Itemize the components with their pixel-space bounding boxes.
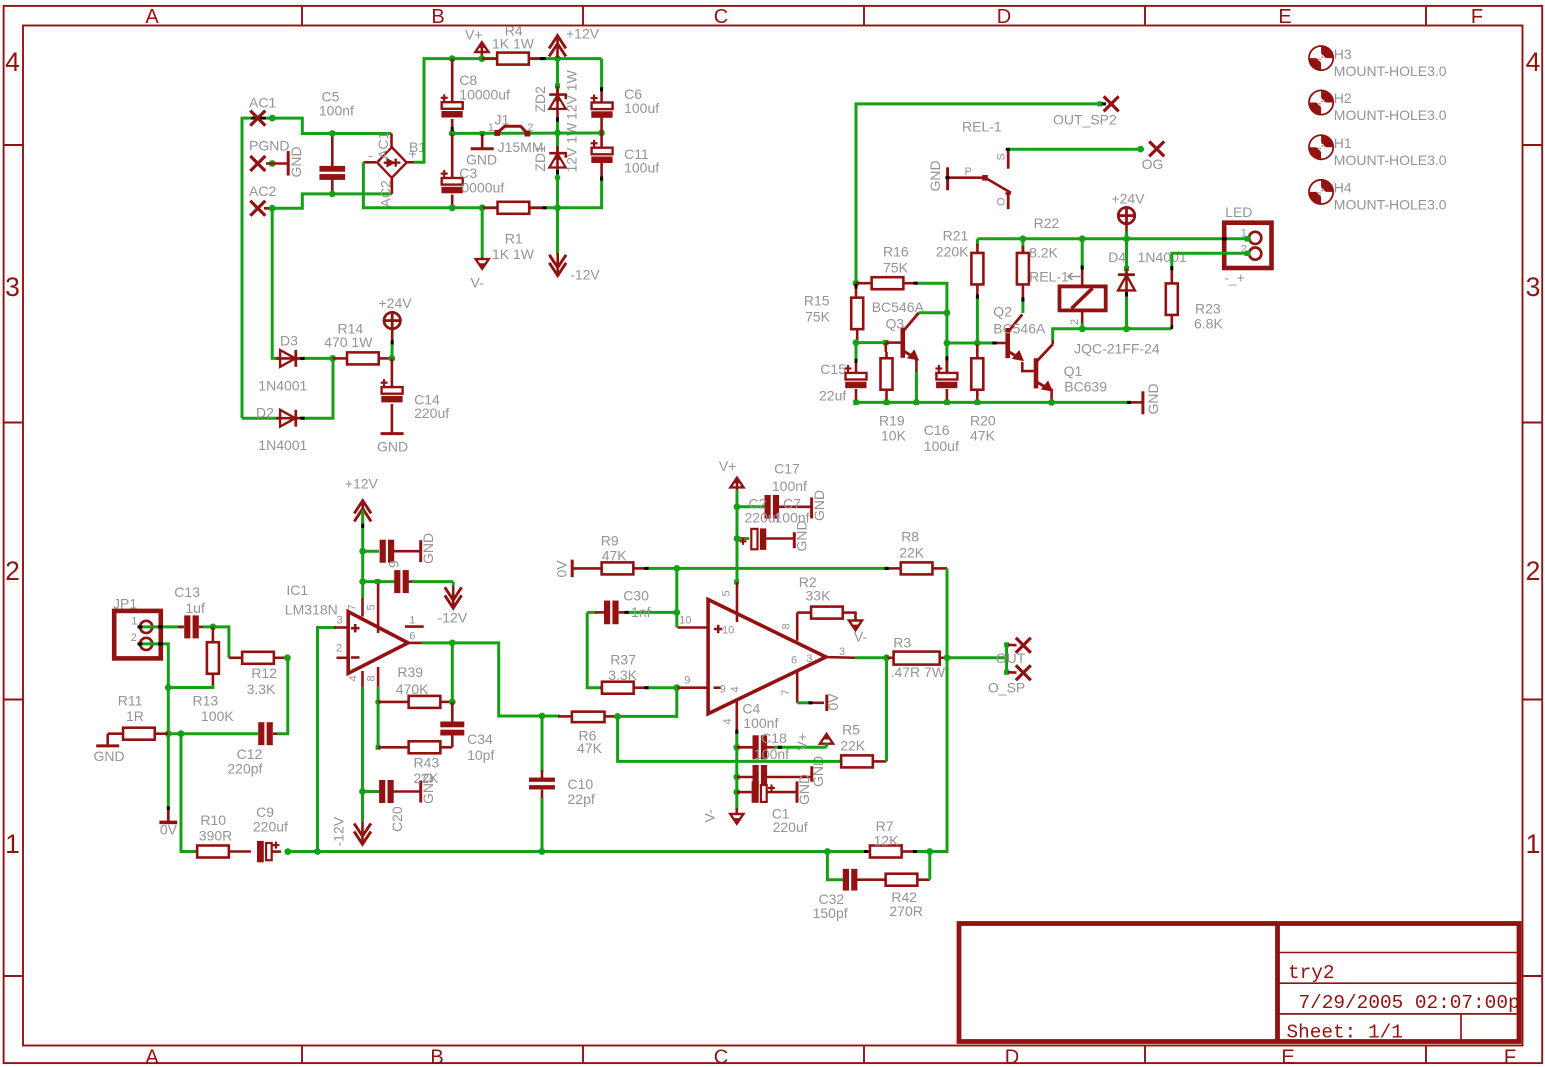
svg-text:100nf: 100nf: [319, 103, 354, 119]
relay contact pole P: [982, 175, 988, 181]
supply V- bottom: [481, 208, 484, 257]
svg-text:3: 3: [5, 272, 20, 302]
ground PGND: [287, 151, 290, 176]
svg-text:D2: D2: [256, 405, 274, 421]
ground rail relay: [856, 401, 1130, 404]
wire AC2 net: [272, 194, 392, 208]
zener diode ZD1: [554, 130, 561, 137]
capacitor C2 bypass op2: [737, 537, 749, 540]
svg-text:Q2: Q2: [993, 304, 1012, 320]
svg-text:1R: 1R: [126, 708, 144, 724]
jumper J1: [480, 131, 485, 136]
supply V- at R2: [854, 613, 857, 621]
diode D2: [276, 417, 301, 420]
supply +12V at IC1: [361, 505, 364, 523]
svg-text:GND: GND: [811, 490, 827, 521]
svg-text:10: 10: [679, 615, 691, 627]
svg-text:-12V: -12V: [331, 816, 347, 846]
svg-text:+24V: +24V: [379, 295, 413, 311]
svg-text:Q1: Q1: [1064, 363, 1083, 379]
svg-text:H2: H2: [1334, 90, 1352, 106]
svg-text:S: S: [996, 153, 1008, 160]
capacitor C17: [737, 505, 765, 508]
resistor R20: [974, 340, 981, 347]
svg-text:B: B: [430, 1047, 443, 1067]
supply -12V: [556, 208, 559, 255]
wire Q3 emitter to gnd rail: [915, 358, 918, 403]
svg-text:75K: 75K: [805, 309, 831, 325]
svg-text:try2: try2: [1288, 962, 1335, 984]
wire feedback rail to R5: [618, 716, 843, 761]
svg-text:-_+: -_+: [1224, 270, 1245, 286]
svg-text:3: 3: [337, 615, 343, 627]
svg-text:4: 4: [730, 686, 742, 692]
svg-text:100uf: 100uf: [924, 438, 959, 454]
wire bridge minus rail: [414, 59, 602, 163]
svg-text:+24V: +24V: [1111, 191, 1145, 207]
svg-text:22uf: 22uf: [819, 388, 846, 404]
svg-text:V+: V+: [465, 27, 483, 43]
svg-text:GND: GND: [466, 152, 497, 168]
svg-text:7: 7: [347, 604, 359, 610]
svg-text:390R: 390R: [199, 828, 232, 844]
svg-text:R15: R15: [804, 293, 830, 309]
capacitor C32: [827, 852, 843, 880]
svg-text:R10: R10: [200, 812, 226, 828]
svg-text:100nf: 100nf: [754, 746, 789, 762]
wire AC2 to D3 anode: [272, 208, 280, 358]
svg-text:R21: R21: [943, 228, 969, 244]
svg-text:1: 1: [409, 615, 415, 627]
supply -12V at IC1 bottom: [361, 822, 364, 840]
capacitor C34: [449, 699, 456, 706]
bridge B1 pin stubs: [390, 134, 393, 147]
svg-text:4: 4: [5, 47, 20, 77]
svg-text:3.3K: 3.3K: [247, 681, 276, 697]
wire IC1 output net: [449, 640, 456, 647]
svg-text:O_SP: O_SP: [988, 680, 1025, 696]
svg-text:R5: R5: [842, 722, 860, 738]
svg-text:C20: C20: [389, 806, 405, 832]
svg-text:1N4001: 1N4001: [258, 437, 307, 453]
svg-text:33K: 33K: [806, 587, 832, 603]
svg-text:4: 4: [348, 675, 360, 681]
supply V+ top: [475, 42, 488, 52]
op2 pin7 to 0V: [796, 670, 799, 703]
wire bottom rail: [288, 850, 828, 853]
capacitor C5: [331, 134, 334, 168]
svg-text:2: 2: [131, 632, 137, 644]
svg-text:47K: 47K: [602, 548, 628, 564]
svg-text:100nf: 100nf: [743, 715, 778, 731]
IC1 pin1 stub: [405, 625, 424, 628]
svg-text:ZD2: ZD2: [532, 86, 548, 113]
svg-text:Sheet: 1/1: Sheet: 1/1: [1287, 1022, 1403, 1044]
svg-text:REL-1: REL-1: [1029, 269, 1069, 285]
svg-text:AC2: AC2: [249, 183, 276, 199]
junction AC2: [269, 205, 276, 212]
resistor R15: [853, 280, 860, 287]
svg-text:2: 2: [1526, 556, 1541, 586]
supply -12V small at IC1 top: [452, 586, 455, 604]
svg-text:C: C: [714, 6, 728, 28]
supply +24V relay: [1123, 235, 1130, 242]
wire C13 to R12: [199, 626, 205, 629]
svg-text:GND: GND: [796, 774, 812, 805]
svg-text:3: 3: [1526, 272, 1541, 302]
relay contact S: [1007, 150, 1010, 169]
wire R37 C30 left net: [587, 612, 602, 687]
svg-text:+12V: +12V: [345, 476, 379, 492]
frame row ticks right: [1523, 144, 1543, 146]
svg-text:A: A: [145, 1047, 159, 1067]
ground relay right: [1130, 401, 1143, 404]
resistor R13: [212, 627, 215, 642]
svg-text:1: 1: [5, 829, 20, 859]
title block outline: [959, 924, 1519, 1042]
wire R11 to C12: [168, 732, 258, 735]
relay contact O: [1007, 190, 1010, 209]
resistor R6: [542, 715, 560, 718]
wire R5 to output node: [885, 658, 888, 762]
capacitor C14: [391, 358, 394, 389]
svg-text:PGND: PGND: [249, 138, 289, 154]
svg-text:C: C: [714, 1047, 728, 1067]
svg-text:2: 2: [1069, 319, 1081, 325]
IC1 pin4: [361, 671, 364, 687]
resistor R7: [827, 850, 868, 853]
IC1 pin7: [361, 597, 364, 616]
svg-text:LED: LED: [1225, 204, 1252, 220]
svg-text:BC546A: BC546A: [993, 321, 1046, 337]
svg-text:B: B: [431, 6, 444, 28]
svg-text:2: 2: [5, 556, 20, 586]
svg-text:D: D: [1005, 1047, 1019, 1067]
resistor R21: [976, 239, 979, 246]
svg-text:0V: 0V: [825, 693, 841, 711]
ground below J1: [481, 133, 484, 148]
capacitor C11: [600, 133, 603, 150]
mount hole H4: [1309, 180, 1333, 204]
svg-text:REL-1: REL-1: [962, 119, 1002, 135]
resistor R19: [885, 342, 887, 344]
svg-text:BC639: BC639: [1064, 379, 1107, 395]
svg-text:F: F: [1504, 1047, 1516, 1067]
wire AC1 to D2 anode: [242, 417, 280, 420]
resistor R5: [841, 760, 845, 763]
svg-text:J1: J1: [495, 112, 510, 128]
mount hole H3: [1309, 46, 1333, 70]
svg-text:100uf: 100uf: [624, 159, 659, 175]
relay coil REL-1: [1079, 235, 1086, 242]
svg-text:9: 9: [386, 560, 402, 568]
svg-text:Q3: Q3: [886, 316, 905, 332]
svg-text:H4: H4: [1334, 180, 1352, 196]
wire V+ to pin5: [736, 490, 739, 582]
svg-text:9: 9: [684, 675, 690, 687]
svg-text:-: -: [368, 147, 373, 163]
svg-text:220uf: 220uf: [253, 819, 288, 835]
svg-text:1K 1W: 1K 1W: [492, 35, 535, 51]
svg-text:220pf: 220pf: [227, 761, 262, 777]
svg-text:GND: GND: [420, 533, 436, 564]
resistor R4: [482, 57, 497, 60]
resistor R3: [887, 656, 894, 659]
wire PGND to GND: [266, 162, 288, 165]
svg-text:O: O: [996, 197, 1008, 206]
svg-text:4: 4: [722, 718, 734, 724]
capacitor C4 to V+: [737, 746, 754, 749]
svg-text:220K: 220K: [936, 244, 969, 260]
svg-text:47K: 47K: [970, 428, 996, 444]
op2 output pin3: [824, 656, 857, 659]
capacitor C20: [363, 790, 380, 793]
svg-text:+: +: [409, 146, 417, 162]
svg-text:1: 1: [488, 122, 494, 134]
svg-text:10K: 10K: [881, 428, 907, 444]
svg-text:R39: R39: [397, 664, 423, 680]
svg-text:8.2K: 8.2K: [1029, 245, 1058, 261]
svg-text:P: P: [965, 166, 972, 178]
supply V+ op2: [730, 478, 743, 488]
mount hole H2: [1309, 90, 1333, 114]
svg-text:75K: 75K: [883, 259, 909, 275]
resistor R9: [572, 567, 602, 570]
svg-text:H1: H1: [1334, 135, 1352, 151]
wire R9 rail to R8: [677, 567, 888, 570]
svg-text:V+: V+: [719, 458, 737, 474]
svg-text:MOUNT-HOLE3.0: MOUNT-HOLE3.0: [1334, 63, 1447, 79]
supply 0V at R9: [571, 560, 574, 578]
svg-text:E: E: [1281, 1047, 1294, 1067]
svg-text:6: 6: [791, 655, 797, 667]
capacitor C8: [449, 55, 456, 62]
title block row lines: [1278, 952, 1520, 954]
op2 pin4 net: [735, 700, 738, 733]
wire noninverting node op2: [675, 568, 678, 612]
svg-text:R3: R3: [893, 635, 911, 651]
svg-text:.47R 7W: .47R 7W: [891, 664, 946, 680]
wire JP1 pin2 net: [138, 644, 168, 808]
svg-text:1N4001: 1N4001: [258, 378, 307, 394]
svg-text:R20: R20: [970, 413, 996, 429]
IC1 pin8: [377, 667, 380, 687]
wire Q3 collector net: [944, 309, 951, 316]
wire input divider down: [181, 734, 198, 852]
svg-text:6.8K: 6.8K: [1194, 316, 1223, 332]
junction AC1: [269, 115, 276, 122]
svg-text:OG: OG: [1142, 156, 1164, 172]
svg-text:D: D: [997, 6, 1011, 28]
svg-text:C18: C18: [761, 730, 787, 746]
pad AC2: [250, 201, 265, 216]
svg-text:GND: GND: [927, 160, 943, 191]
svg-text:220uf: 220uf: [773, 819, 808, 835]
svg-text:2: 2: [336, 643, 342, 655]
svg-text:R22: R22: [1034, 215, 1060, 231]
IC1 output pin6: [406, 642, 422, 645]
svg-text:H3: H3: [1334, 46, 1352, 62]
wire output to OUT pads: [947, 656, 1007, 659]
wire S to OG: [1009, 148, 1141, 151]
svg-text:R9: R9: [601, 533, 619, 549]
svg-text:R1: R1: [505, 230, 523, 246]
op-amp IC1: [348, 612, 408, 674]
resistor R23: [1171, 268, 1174, 284]
svg-text:AC1: AC1: [249, 95, 276, 111]
svg-text:JP1: JP1: [113, 596, 137, 612]
connector JP1: [114, 611, 161, 659]
svg-text:470 1W: 470 1W: [324, 334, 373, 350]
svg-text:8: 8: [781, 623, 793, 629]
wire Q1 collector to coil: [1051, 338, 1054, 344]
op2 pin5: [736, 582, 739, 622]
wire Q1 emitter to gnd: [1050, 389, 1053, 403]
capacitor C10: [541, 716, 544, 772]
pad O_SP: [1008, 671, 1017, 674]
wire C12 up to R12: [273, 732, 279, 735]
svg-text:GND: GND: [1145, 383, 1161, 414]
svg-text:150pf: 150pf: [813, 905, 848, 921]
junction PGND: [269, 160, 276, 167]
svg-text:R23: R23: [1195, 301, 1221, 317]
ground at R11: [106, 734, 109, 746]
pad OUT: [1008, 643, 1017, 646]
svg-text:GND: GND: [94, 748, 125, 764]
svg-text:47K: 47K: [577, 740, 603, 756]
svg-text:100uf: 100uf: [624, 100, 659, 116]
frame column ticks top: [301, 6, 303, 26]
svg-text:22K: 22K: [899, 545, 925, 561]
svg-text:R12: R12: [251, 665, 277, 681]
svg-text:0000uf: 0000uf: [461, 180, 504, 196]
svg-text:10: 10: [722, 625, 734, 637]
capacitor C13: [184, 615, 190, 638]
svg-text:R8: R8: [901, 529, 919, 545]
svg-text:1uf: 1uf: [185, 600, 205, 616]
svg-text:GND: GND: [377, 439, 408, 455]
bridge rectifier B1: [377, 147, 407, 178]
svg-text:+12V: +12V: [566, 26, 600, 42]
svg-text:220uf: 220uf: [414, 405, 449, 421]
ground at contact P: [949, 176, 983, 179]
transistor Q3: [901, 328, 906, 358]
svg-text:22pf: 22pf: [568, 791, 595, 807]
svg-text:2: 2: [527, 122, 533, 134]
resistor R8: [886, 567, 901, 570]
svg-text:BC546A: BC546A: [872, 299, 925, 315]
frame row ticks left: [4, 144, 23, 146]
svg-text:R43: R43: [414, 755, 440, 771]
svg-text:6: 6: [409, 631, 415, 643]
svg-text:F: F: [1471, 6, 1483, 28]
wire 0V rail: [452, 132, 601, 135]
pad AC1: [251, 117, 266, 120]
capacitor C3: [449, 130, 456, 137]
svg-text:MOUNT-HOLE3.0: MOUNT-HOLE3.0: [1334, 197, 1447, 213]
resistor R22: [1020, 235, 1027, 242]
svg-text:470K: 470K: [396, 681, 429, 697]
wire transition nubs: [600, 87, 603, 91]
supply 0V at JP1 net: [167, 809, 170, 822]
resistor R1: [479, 204, 486, 211]
svg-text:V-: V-: [471, 275, 485, 291]
svg-text:R11: R11: [118, 693, 143, 709]
resistor R10: [197, 846, 229, 858]
wire IC1 pin8 net: [377, 687, 380, 748]
resistor R12: [229, 656, 242, 659]
resistor R43: [378, 746, 409, 749]
resistor R42: [886, 874, 918, 886]
svg-text:7/29/2005 02:07:00p: 7/29/2005 02:07:00p: [1299, 992, 1520, 1014]
svg-text:10pf: 10pf: [467, 747, 494, 763]
capacitor C15: [855, 343, 858, 362]
svg-text:C10: C10: [568, 776, 594, 792]
resistor R39: [378, 701, 409, 704]
title block divider: [1275, 924, 1280, 1042]
mount hole H1: [1309, 135, 1333, 159]
wire inverting node op2: [673, 684, 680, 691]
svg-text:JQC-21FF-24: JQC-21FF-24: [1074, 341, 1160, 357]
svg-text:C34: C34: [467, 731, 493, 747]
connector LED: [1224, 223, 1271, 268]
supply V- op2: [730, 814, 743, 824]
svg-text:22K: 22K: [414, 770, 440, 786]
svg-text:D3: D3: [280, 333, 298, 349]
wire LED pin2 to R23: [1172, 253, 1248, 269]
svg-text:GND: GND: [288, 146, 304, 177]
svg-text:A: A: [145, 6, 159, 28]
svg-text:100K: 100K: [201, 708, 234, 724]
svg-text:100nf: 100nf: [772, 478, 807, 494]
svg-text:1K 1W: 1K 1W: [492, 246, 535, 262]
svg-text:270R: 270R: [889, 903, 922, 919]
supply +12V: [554, 55, 561, 62]
wire coil bottom net: [1082, 327, 1172, 330]
wire Q2 emitter to Q1 base: [1022, 362, 1033, 371]
wire noninverting input IC1: [318, 628, 337, 852]
capacitor C9: [257, 841, 264, 862]
diode D3: [276, 357, 301, 360]
svg-text:1: 1: [1526, 829, 1541, 859]
svg-text:C17: C17: [774, 461, 800, 477]
capacitor C30: [595, 611, 604, 614]
wire output node down to R7: [930, 658, 947, 852]
svg-text:V+: V+: [794, 733, 810, 751]
resistor R37: [600, 686, 602, 689]
svg-text:V-: V-: [854, 629, 868, 645]
transistor Q1: [1034, 358, 1039, 388]
svg-text:1nf: 1nf: [631, 604, 651, 620]
svg-text:J15MM: J15MM: [498, 139, 544, 155]
svg-text:C16: C16: [924, 422, 950, 438]
resistor R2: [796, 613, 799, 641]
wire IC1 pin4 to -12V: [361, 687, 364, 822]
transistor Q2: [1005, 328, 1010, 358]
svg-text:-12V: -12V: [570, 267, 600, 283]
svg-text:5: 5: [721, 590, 733, 596]
pad OG: [1137, 146, 1144, 153]
svg-text:LM318N: LM318N: [285, 601, 338, 617]
pad OUT_SP2: [1098, 101, 1103, 106]
svg-text:12K: 12K: [874, 833, 900, 849]
svg-text:22K: 22K: [840, 737, 866, 753]
svg-text:AC2: AC2: [378, 180, 394, 207]
svg-text:8: 8: [366, 675, 378, 681]
resistor R11: [123, 728, 155, 740]
svg-text:1: 1: [1241, 228, 1247, 240]
svg-text:V-: V-: [702, 809, 718, 823]
